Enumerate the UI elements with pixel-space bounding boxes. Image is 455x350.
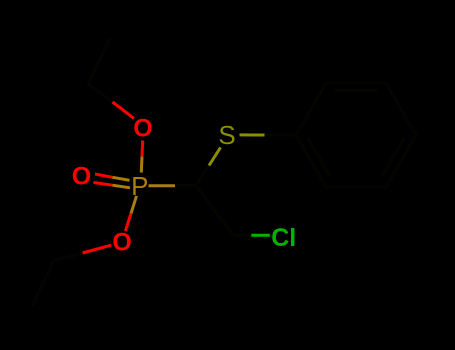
- svg-text:O: O: [133, 115, 152, 143]
- wire: P-O upper ester bond: [141, 141, 142, 173]
- wire: P-O lower ester bond: [125, 196, 136, 231]
- wire: P=O double bond upper line: [95, 174, 130, 180]
- wire: S-phenyl ipso bond: [240, 133, 297, 136]
- svg-text:O: O: [72, 163, 91, 191]
- svg-text:O: O: [112, 228, 131, 256]
- svg-text:S: S: [218, 120, 235, 150]
- benzene ring inner aromatic line top: [334, 89, 378, 92]
- benzene ring inner aromatic line bottom-left: [308, 138, 331, 177]
- wire: upper O-CH2 ethyl bond: [88, 84, 134, 119]
- benzene ring hexagon: [296, 83, 416, 187]
- wire: lower ethyl CH2-CH3 bond: [32, 260, 54, 306]
- wire: P=O double bond lower line: [94, 183, 131, 188]
- wire: C-CH2 bond: [196, 186, 233, 236]
- svg-text:Cl: Cl: [271, 224, 296, 252]
- wire: C-S bond: [196, 148, 221, 186]
- wire: P-C bond to central carbon: [149, 184, 197, 187]
- wire: upper ethyl CH2-CH3 bond: [88, 38, 110, 84]
- wire: CH2-Cl bond: [233, 234, 270, 237]
- svg-text:P: P: [131, 171, 148, 201]
- wire: lower O-CH2 ethyl bond: [54, 245, 111, 260]
- benzene ring inner aromatic line bottom-right: [382, 138, 405, 177]
